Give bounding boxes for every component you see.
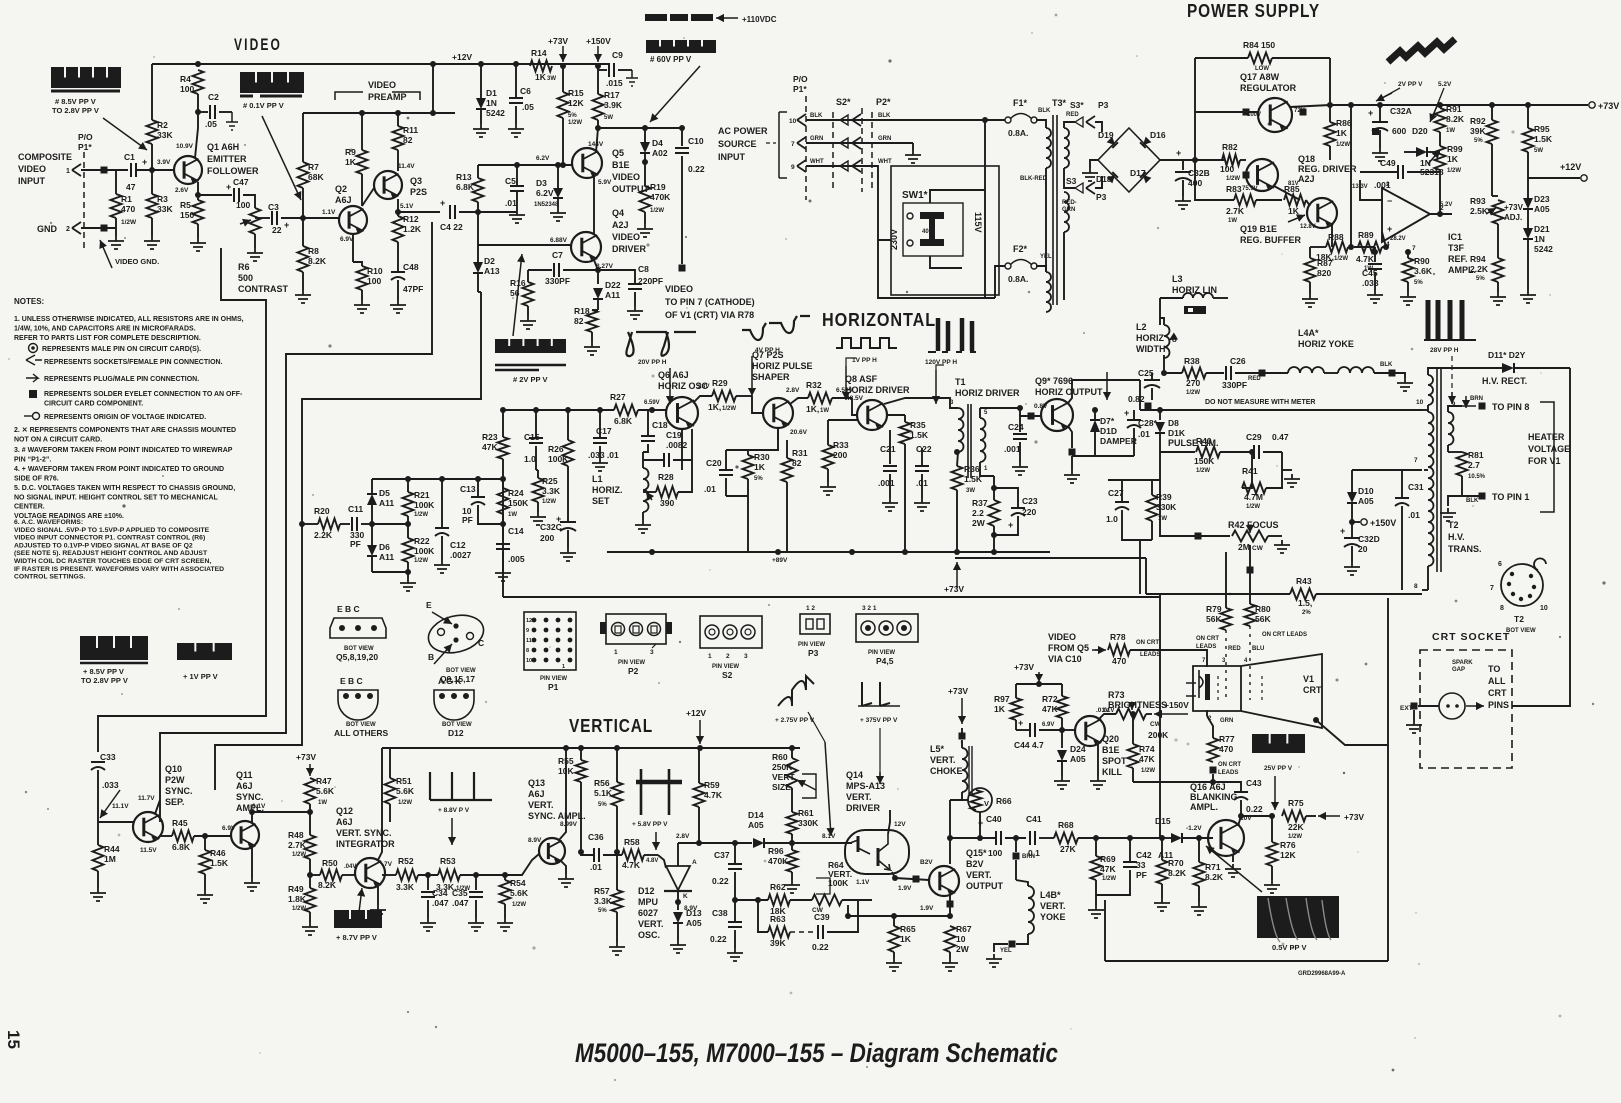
wire xyxy=(1039,837,1054,839)
wire xyxy=(477,479,479,497)
wire xyxy=(1316,720,1388,745)
svg-text:2: 2 xyxy=(726,653,730,660)
note symbol socket pin xyxy=(26,355,42,365)
svg-text:3.3K: 3.3K xyxy=(594,896,613,906)
wire xyxy=(1492,195,1498,197)
svg-text:A6J: A6J xyxy=(236,781,253,791)
svg-text:R46: R46 xyxy=(210,848,226,858)
wire xyxy=(515,106,517,124)
svg-text:-1.2V: -1.2V xyxy=(1186,825,1202,832)
wire xyxy=(1132,768,1134,782)
svg-text:1/2W: 1/2W xyxy=(650,208,664,214)
svg-text:D2: D2 xyxy=(484,256,495,266)
svg-text:D7*: D7* xyxy=(1100,416,1115,426)
wire xyxy=(372,523,408,525)
svg-text:56: 56 xyxy=(510,288,520,298)
svg-text:+12V: +12V xyxy=(686,708,706,718)
wire xyxy=(734,872,736,900)
wire xyxy=(598,69,607,71)
svg-text:LEADS: LEADS xyxy=(1140,652,1160,658)
svg-text:4.7K: 4.7K xyxy=(1356,254,1375,264)
wire xyxy=(1392,373,1405,378)
wire xyxy=(1133,410,1135,420)
wire xyxy=(1266,452,1282,488)
ground R41 xyxy=(1284,474,1300,487)
svg-text:2.2K: 2.2K xyxy=(1470,264,1489,274)
svg-text:R57: R57 xyxy=(594,886,610,896)
svg-text:TRANS.: TRANS. xyxy=(1448,544,1482,554)
ground C12 xyxy=(434,560,450,573)
svg-text:270: 270 xyxy=(1186,378,1200,388)
svg-text:7: 7 xyxy=(1490,585,1494,592)
svg-text:CRT: CRT xyxy=(1488,688,1507,698)
svg-text:8.9V: 8.9V xyxy=(528,837,542,844)
svg-text:8: 8 xyxy=(1500,605,1504,612)
svg-text:R27: R27 xyxy=(610,392,626,402)
diode D15 A11 xyxy=(1171,833,1182,843)
svg-text:P1*: P1* xyxy=(793,84,807,94)
svg-text:K: K xyxy=(683,893,688,900)
wire xyxy=(593,176,595,234)
svg-text:1N: 1N xyxy=(1534,234,1545,244)
wire xyxy=(1428,368,1460,375)
wire xyxy=(1448,496,1462,506)
eyelet red yoke xyxy=(1259,370,1266,377)
svg-text:R56: R56 xyxy=(594,778,610,788)
svg-text:10: 10 xyxy=(1416,399,1424,406)
wire xyxy=(1062,729,1075,731)
svg-text:.015: .015 xyxy=(606,78,623,88)
wire xyxy=(567,530,569,548)
svg-text:VERTICAL: VERTICAL xyxy=(569,716,653,736)
svg-text:C28*: C28* xyxy=(1138,418,1158,428)
svg-text:VERT.: VERT. xyxy=(966,870,992,880)
wire xyxy=(1130,650,1207,667)
svg-text:B1E: B1E xyxy=(612,160,630,170)
svg-text:BLK: BLK xyxy=(1038,108,1051,114)
svg-text:D20: D20 xyxy=(1412,126,1428,136)
svg-text:1.0: 1.0 xyxy=(524,454,536,464)
wire xyxy=(752,396,763,413)
svg-text:VIA C10: VIA C10 xyxy=(1048,654,1082,664)
svg-text:B: B xyxy=(428,652,434,662)
svg-text:5W: 5W xyxy=(604,115,613,121)
svg-text:2W: 2W xyxy=(956,944,970,954)
svg-text:5.9V: 5.9V xyxy=(598,179,612,186)
arrow socket to pins xyxy=(1466,705,1484,707)
svg-text:8.99V: 8.99V xyxy=(560,821,578,828)
resistor R78 470 xyxy=(1108,645,1130,656)
svg-text:ON CRT: ON CRT xyxy=(1136,640,1159,646)
svg-text:ALL: ALL xyxy=(1488,676,1506,686)
svg-text:1: 1 xyxy=(562,664,565,670)
waveform photo bar near video input xyxy=(51,67,121,88)
wire xyxy=(1063,232,1065,300)
svg-text:HORIZ DRIVER: HORIZ DRIVER xyxy=(845,385,910,395)
vert size adj bracket xyxy=(802,774,816,798)
svg-text:PREAMP: PREAMP xyxy=(368,92,407,102)
svg-text:R79: R79 xyxy=(1206,604,1222,614)
wire xyxy=(1447,445,1449,452)
wire xyxy=(1351,470,1353,492)
svg-text:D18: D18 xyxy=(1096,174,1112,184)
wire xyxy=(1151,480,1153,495)
wire xyxy=(642,452,644,468)
wire xyxy=(562,118,564,165)
svg-text:.0027: .0027 xyxy=(450,550,472,560)
svg-text:+ 1V PP V: + 1V PP V xyxy=(183,672,218,681)
svg-text:6: 6 xyxy=(1498,561,1502,568)
svg-text:7V: 7V xyxy=(384,861,393,868)
wire xyxy=(904,444,906,552)
wire xyxy=(1212,774,1214,782)
svg-text:R86: R86 xyxy=(1336,118,1352,128)
svg-text:150: 150 xyxy=(180,210,194,220)
wire xyxy=(551,851,553,853)
ground R8 xyxy=(295,290,311,303)
svg-text:68K: 68K xyxy=(308,172,324,182)
svg-text:6027: 6027 xyxy=(638,908,658,918)
wire xyxy=(1235,372,1262,374)
wire xyxy=(994,944,1008,952)
resistor R58 4.7K xyxy=(622,850,644,861)
wire xyxy=(377,886,379,905)
wire xyxy=(504,904,506,918)
svg-text:2.7: 2.7 xyxy=(1468,460,1480,470)
svg-text:VIDEO: VIDEO xyxy=(612,232,640,242)
wire xyxy=(198,194,232,196)
svg-text:1W: 1W xyxy=(1446,128,1455,134)
svg-text:EMITTER: EMITTER xyxy=(207,154,247,164)
svg-text:R18: R18 xyxy=(574,306,590,316)
resistor R31 82 xyxy=(782,458,793,482)
wire xyxy=(962,799,968,801)
wire xyxy=(1163,355,1165,373)
wire xyxy=(956,490,958,552)
svg-text:NOT ON A CIRCUIT CARD.: NOT ON A CIRCUIT CARD. xyxy=(14,437,102,444)
wire xyxy=(535,446,537,470)
svg-text:R49: R49 xyxy=(288,884,304,894)
transistor Q19 B1E reg buffer xyxy=(1307,198,1337,228)
svg-text:POWER SUPPLY: POWER SUPPLY xyxy=(1187,1,1320,21)
wire xyxy=(527,306,529,316)
svg-text:+73V: +73V xyxy=(944,584,964,594)
diode D21 1N5242 xyxy=(1523,228,1533,239)
resistor R22 100K xyxy=(403,538,414,562)
svg-text:Q5: Q5 xyxy=(612,148,624,158)
ground C45 xyxy=(1367,290,1383,303)
svg-text:CW: CW xyxy=(1252,545,1264,552)
svg-text:BLK-RED: BLK-RED xyxy=(1020,176,1048,182)
dashed drop from comb xyxy=(1451,356,1453,400)
svg-text:DO NOT MEASURE WITH METER: DO NOT MEASURE WITH METER xyxy=(1205,399,1315,406)
svg-text:+: + xyxy=(1124,408,1129,418)
wire xyxy=(361,113,363,150)
wire xyxy=(478,164,572,166)
wire xyxy=(599,446,601,458)
svg-text:VERT. SYNC.: VERT. SYNC. xyxy=(336,828,392,838)
wire xyxy=(136,169,175,171)
svg-text:10.9V: 10.9V xyxy=(176,143,194,150)
resistor R16 56 xyxy=(523,282,534,306)
svg-text:PINS: PINS xyxy=(1488,700,1509,710)
svg-text:R59: R59 xyxy=(704,780,720,790)
wire xyxy=(1098,714,1116,720)
svg-text:REGULATOR: REGULATOR xyxy=(1240,83,1297,93)
svg-text:SW1*: SW1* xyxy=(902,190,928,201)
svg-text:BLK: BLK xyxy=(878,113,891,119)
svg-text:+110VDC: +110VDC xyxy=(742,15,777,24)
wire xyxy=(480,109,482,124)
wire xyxy=(1019,442,1021,462)
svg-text:Q19 B1E: Q19 B1E xyxy=(1240,224,1277,234)
wire xyxy=(371,505,373,524)
svg-text:1K,: 1K, xyxy=(806,404,819,414)
svg-text:22: 22 xyxy=(272,225,282,235)
wire xyxy=(1401,470,1403,498)
wire xyxy=(678,842,735,844)
wire xyxy=(1064,122,1075,128)
svg-text:A05: A05 xyxy=(1534,204,1550,214)
svg-text:150K: 150K xyxy=(1194,456,1215,466)
dashed measure lines xyxy=(1382,88,1444,118)
svg-text:.033: .033 xyxy=(102,780,119,790)
capacitor C22 .01 xyxy=(915,465,929,467)
svg-text:0.22: 0.22 xyxy=(712,876,729,886)
wire xyxy=(1448,451,1462,453)
wire xyxy=(955,557,1146,559)
svg-text:NO SIGNAL INPUT. HEIGHT CONT: NO SIGNAL INPUT. HEIGHT CONTROL SET TO M… xyxy=(14,494,219,501)
wire xyxy=(1159,298,1161,325)
svg-text:1/2W: 1/2W xyxy=(1447,168,1461,174)
resistor R38 270 xyxy=(1182,368,1206,379)
svg-text:D4: D4 xyxy=(652,138,663,148)
svg-text:.05: .05 xyxy=(522,102,534,112)
wire xyxy=(1256,199,1282,201)
resistor R7 68K xyxy=(298,162,309,188)
wire xyxy=(1122,530,1152,540)
svg-text:.01: .01 xyxy=(704,484,716,494)
waveform photo bar near video preamp xyxy=(240,72,304,93)
ground R10 xyxy=(354,300,370,313)
svg-text:3: 3 xyxy=(650,649,654,656)
svg-text:INPUT: INPUT xyxy=(718,152,746,162)
svg-text:3W: 3W xyxy=(966,488,975,494)
wire xyxy=(1272,57,1330,59)
svg-text:1. UNLESS OTHERWISE INDICATED: 1. UNLESS OTHERWISE INDICATED, ALL RESIS… xyxy=(14,316,244,323)
wire xyxy=(427,875,429,890)
connector P1 pin view grid xyxy=(524,612,576,670)
wire xyxy=(557,165,559,178)
svg-text:D1K: D1K xyxy=(1168,428,1186,438)
wire xyxy=(197,224,199,238)
svg-text:CRT SOCKET: CRT SOCKET xyxy=(1432,631,1510,643)
svg-text:C2: C2 xyxy=(208,92,219,102)
connector P2 pin view xyxy=(606,614,666,644)
wire xyxy=(1105,960,1388,962)
svg-text:+73V: +73V xyxy=(296,752,316,762)
svg-text:4.7M: 4.7M xyxy=(1244,492,1263,502)
svg-text:R30: R30 xyxy=(754,452,770,462)
wire xyxy=(1282,469,1292,471)
wire xyxy=(786,440,788,458)
wire xyxy=(281,217,339,219)
resistor R25 3.3K xyxy=(533,478,544,502)
svg-text:12V: 12V xyxy=(894,821,906,828)
svg-text:220PF: 220PF xyxy=(638,276,663,286)
wire xyxy=(1439,170,1441,214)
svg-text:1/2W: 1/2W xyxy=(1141,768,1155,774)
svg-text:1N52348: 1N52348 xyxy=(534,202,559,208)
wire xyxy=(806,166,891,240)
pointer arrow from bar to Q1 input xyxy=(103,118,147,150)
wire xyxy=(302,188,304,218)
svg-text:FROM Q5: FROM Q5 xyxy=(1048,643,1089,653)
svg-text:47K: 47K xyxy=(482,442,498,452)
thermistor R66 xyxy=(968,788,992,812)
svg-text:.01: .01 xyxy=(590,862,602,872)
svg-text:390: 390 xyxy=(660,498,674,508)
svg-text:TO 2.8V PP V: TO 2.8V PP V xyxy=(52,106,99,115)
svg-text:GRN: GRN xyxy=(1062,207,1075,213)
svg-text:T3F: T3F xyxy=(1448,243,1465,253)
wire xyxy=(155,800,160,814)
dashed wire R63 to C39 xyxy=(790,931,816,933)
svg-text:Q2: Q2 xyxy=(335,184,347,194)
wire xyxy=(361,290,363,300)
wire xyxy=(361,174,363,206)
arrow adjust D20 xyxy=(1428,150,1440,164)
svg-text:P2W: P2W xyxy=(165,775,185,785)
svg-text:REPRESENTS SOCKETS/FEMALE PIN: REPRESENTS SOCKETS/FEMALE PIN CONNECTION… xyxy=(44,359,223,366)
svg-text:5.6K: 5.6K xyxy=(510,888,529,898)
wire xyxy=(644,854,658,856)
svg-text:6.8K: 6.8K xyxy=(172,842,191,852)
svg-text:R74: R74 xyxy=(1139,744,1155,754)
wire xyxy=(195,128,198,158)
svg-text:R83: R83 xyxy=(1226,184,1242,194)
svg-text:D23: D23 xyxy=(1534,194,1550,204)
svg-text:C10: C10 xyxy=(688,136,704,146)
svg-text:R55: R55 xyxy=(558,756,574,766)
svg-text:+73V: +73V xyxy=(1504,203,1524,212)
svg-text:−: − xyxy=(1387,196,1392,206)
wire xyxy=(681,156,683,264)
ground R16 xyxy=(520,316,536,329)
svg-text:YOKE: YOKE xyxy=(1040,912,1066,922)
svg-text:+ 8.5V PP V: + 8.5V PP V xyxy=(83,667,124,676)
wire xyxy=(1132,714,1134,730)
wire xyxy=(397,150,399,171)
svg-text:1: 1 xyxy=(614,649,618,656)
wire xyxy=(477,202,479,245)
svg-text:C3: C3 xyxy=(268,202,279,212)
svg-text:E B C: E B C xyxy=(337,604,360,614)
wire xyxy=(592,309,598,311)
wire xyxy=(726,495,748,497)
wire xyxy=(893,916,895,926)
capacitor C8 220PF xyxy=(628,283,642,285)
svg-text:.01: .01 xyxy=(505,198,517,208)
svg-text:SOURCE: SOURCE xyxy=(718,139,757,149)
wire xyxy=(995,266,1005,298)
wire xyxy=(1016,934,1028,944)
wire xyxy=(1005,837,1026,839)
wire xyxy=(734,843,736,864)
svg-text:R82: R82 xyxy=(1222,142,1238,152)
svg-text:1.5K: 1.5K xyxy=(1534,134,1553,144)
svg-text:6.9V: 6.9V xyxy=(340,236,354,243)
resistor R14 1K 3W inline xyxy=(530,61,552,72)
wire xyxy=(904,415,906,422)
svg-text:C41: C41 xyxy=(1026,814,1042,824)
svg-text:+73V: +73V xyxy=(1014,662,1034,672)
svg-text:25V PP V: 25V PP V xyxy=(1264,765,1293,772)
wire opamp output to R93 xyxy=(1437,211,1443,217)
wire xyxy=(1424,469,1428,471)
svg-text:82: 82 xyxy=(403,135,413,145)
wire xyxy=(389,748,391,778)
svg-text:VERT.: VERT. xyxy=(930,755,956,765)
wire xyxy=(642,512,644,520)
resistor R39 330K 1W xyxy=(1147,495,1158,521)
wire xyxy=(827,420,829,445)
wire xyxy=(1061,684,1063,696)
ground R87 xyxy=(1302,294,1318,307)
ground C21 xyxy=(882,498,898,511)
svg-text:500: 500 xyxy=(238,273,253,283)
waveform photo bar 2V horiz xyxy=(495,339,566,353)
svg-text:47: 47 xyxy=(126,182,136,192)
svg-text:R37: R37 xyxy=(972,498,988,508)
+73V terminal xyxy=(1589,102,1595,108)
wire xyxy=(1121,510,1123,530)
wire xyxy=(302,523,318,525)
wire xyxy=(252,812,310,823)
wire xyxy=(204,874,206,890)
svg-text:R1: R1 xyxy=(121,194,132,204)
wire xyxy=(832,397,852,399)
wire xyxy=(1068,426,1072,448)
svg-text:27K: 27K xyxy=(1060,844,1076,854)
svg-text:6.1V: 6.1V xyxy=(252,803,266,810)
waveform photo bar 60V near video output xyxy=(646,40,716,53)
svg-text:0.5V PP V: 0.5V PP V xyxy=(1272,943,1306,952)
svg-text:R77: R77 xyxy=(1219,734,1235,744)
svg-text:R45: R45 xyxy=(172,818,188,828)
svg-text:10: 10 xyxy=(1540,605,1548,612)
resistor R27 6.8K inline xyxy=(614,405,638,416)
svg-text:E B C: E B C xyxy=(340,676,363,686)
svg-text:CIRCUIT CARD COMPONENT.: CIRCUIT CARD COMPONENT. xyxy=(44,401,143,408)
svg-text:C18: C18 xyxy=(652,420,668,430)
svg-text:A05: A05 xyxy=(748,820,764,830)
wire xyxy=(1232,855,1234,862)
wire xyxy=(1306,815,1316,817)
wire xyxy=(698,748,700,783)
svg-text:1W: 1W xyxy=(1228,218,1237,224)
resistor R62 18K xyxy=(768,895,790,906)
wire xyxy=(1015,838,1017,852)
svg-text:C23: C23 xyxy=(1022,496,1038,506)
ground C32A xyxy=(1372,148,1388,161)
wire xyxy=(477,165,479,178)
wire xyxy=(1016,729,1030,731)
svg-text:1: 1 xyxy=(708,653,712,660)
wire xyxy=(827,900,858,932)
svg-text:YEL: YEL xyxy=(1000,948,1012,954)
ground L1 xyxy=(635,520,651,533)
